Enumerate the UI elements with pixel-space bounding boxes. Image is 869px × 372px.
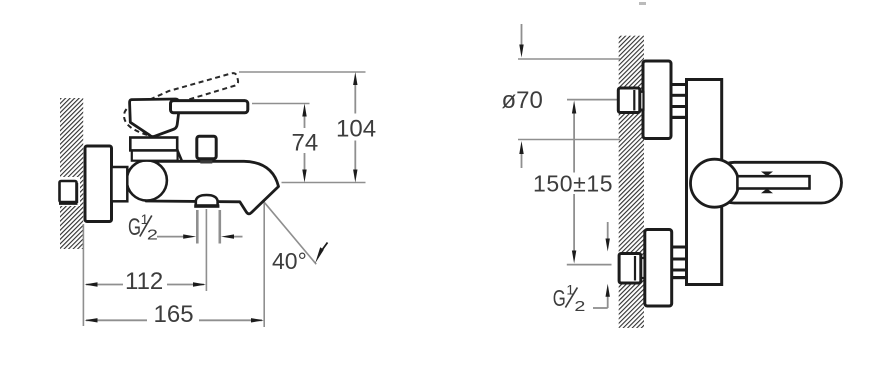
flange top outside arrow	[521, 24, 523, 46]
svg-text:104: 104	[336, 116, 376, 143]
wall nut halo (left view)	[56, 177, 80, 206]
handle head (solid)	[130, 99, 180, 137]
dimension 104 line	[353, 72, 357, 183]
dimension 112 line	[85, 282, 207, 286]
shoulder slant to body top	[178, 151, 182, 162]
G1/2 label (right view)	[553, 282, 586, 316]
G1/2 label (left view)	[128, 211, 158, 243]
dimension 74 line	[302, 104, 306, 183]
G1/2 outside arrows (right view)	[607, 222, 609, 240]
svg-text:112: 112	[125, 268, 163, 295]
extension line: flange bottom	[518, 139, 620, 141]
wall section hatching (left view)	[60, 98, 83, 249]
svg-text:2: 2	[147, 226, 158, 243]
bottom nut strip	[638, 258, 645, 278]
dimension 150+-15 line	[572, 101, 576, 264]
extension line: spout outlet level (bottom)	[282, 182, 366, 184]
cartridge collar band 1	[130, 138, 177, 151]
bottom nut inner line	[634, 256, 636, 281]
leader: top connection centre	[567, 99, 618, 101]
bottom nut	[619, 254, 641, 284]
extension line: spout tip	[263, 201, 265, 327]
aerator base bar	[194, 204, 219, 207]
extension line: aerator centre	[205, 209, 207, 291]
slot arrow down	[761, 172, 773, 177]
wall nut (left view)	[60, 181, 77, 202]
svg-text:40°: 40°	[272, 248, 307, 274]
handle pivot sphere	[691, 159, 739, 207]
svg-text:150±15: 150±15	[533, 171, 613, 197]
wall flange (left view)	[85, 146, 112, 222]
svg-text:2: 2	[574, 298, 585, 315]
handle slot	[737, 176, 809, 188]
G1/2 leader (left view)	[157, 234, 243, 238]
aerator bump under spout	[196, 195, 218, 206]
svg-text:ø70: ø70	[502, 87, 543, 114]
svg-text:G: G	[553, 285, 566, 311]
top nut inner line	[633, 90, 635, 111]
extension bars under aerator	[196, 210, 199, 244]
top nut strip	[637, 92, 644, 110]
dimension 40 deg arrow	[315, 247, 324, 263]
bottom flange (right view)	[645, 230, 672, 307]
dashed lever (raised position)	[150, 73, 238, 103]
extension line: wall face (left view)	[82, 224, 84, 326]
threaded ribs top	[671, 83, 687, 119]
cartridge collar band 2	[132, 150, 178, 161]
threaded ribs bottom	[672, 246, 688, 280]
leader: bottom connection centre	[567, 264, 612, 266]
connector between flange and body (left view)	[112, 167, 128, 201]
extension line: handle tip level (top)	[239, 71, 366, 73]
dimension 40 deg angled line	[265, 203, 317, 265]
diverter knob	[197, 136, 216, 159]
faucet body (left view)	[146, 161, 279, 214]
wall section hatching (right view)	[619, 36, 644, 328]
svg-text:165: 165	[154, 301, 194, 328]
dashed head outline (raised position)	[124, 100, 150, 136]
valve dome circle (left view)	[127, 160, 167, 200]
body (right view)	[687, 80, 722, 285]
stray mark top edge	[639, 2, 646, 5]
top flange (right view)	[643, 61, 671, 139]
handle stadium (right view)	[714, 162, 842, 203]
extension line: lever level (middle)	[252, 103, 310, 105]
diverter knob neck	[200, 157, 212, 164]
top nut	[618, 88, 640, 113]
dimension 165 line	[85, 318, 265, 322]
flange bottom outside arrow	[521, 153, 523, 168]
svg-text:G: G	[128, 214, 141, 241]
handle lever (solid)	[171, 101, 248, 113]
slot arrow up	[761, 189, 773, 194]
wall nut bottom shadow	[59, 202, 78, 205]
svg-text:74: 74	[292, 129, 319, 156]
dimension 40 deg tail tick	[320, 243, 328, 254]
extension line: flange top	[518, 58, 620, 60]
